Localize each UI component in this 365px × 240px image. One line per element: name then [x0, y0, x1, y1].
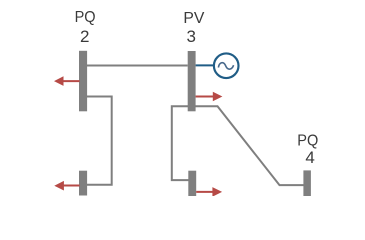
- svg-text:PQ: PQ: [75, 9, 96, 26]
- svg-text:3: 3: [186, 27, 195, 46]
- svg-text:2: 2: [80, 27, 89, 46]
- svg-text:PV: PV: [183, 10, 204, 27]
- svg-text:4: 4: [305, 148, 314, 167]
